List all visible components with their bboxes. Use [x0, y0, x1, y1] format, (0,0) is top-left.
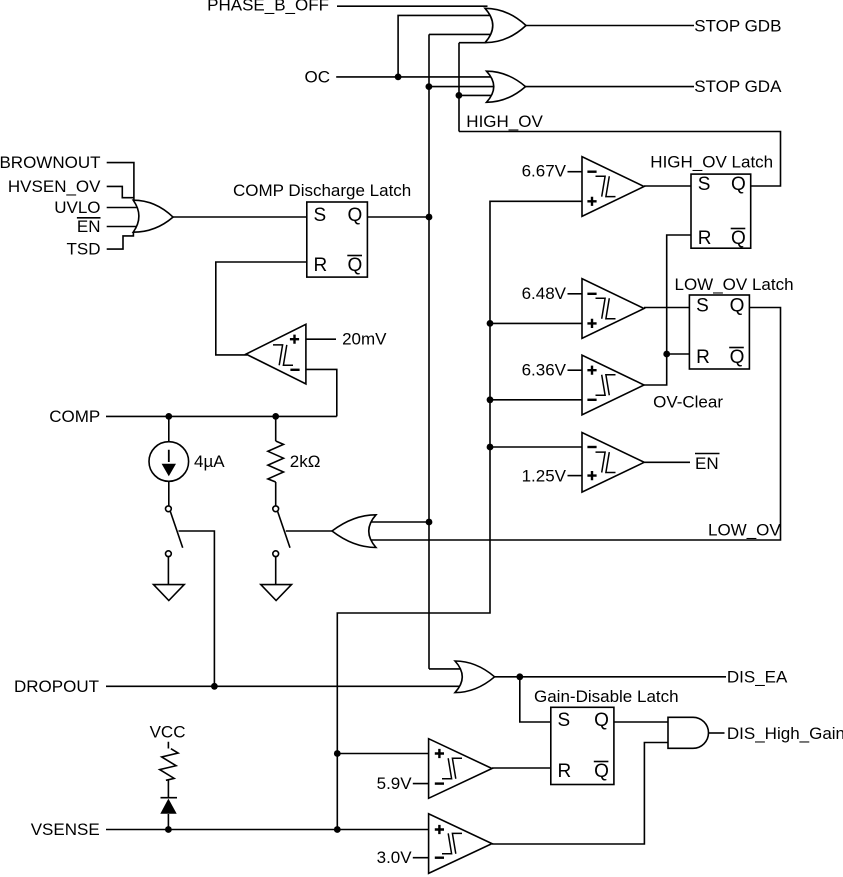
- node HIGH_OV / OR2 tap: [456, 92, 463, 99]
- hysteresis symbol C6: [442, 758, 462, 778]
- node sense / C4 minus tap: [487, 444, 494, 451]
- svg-text:COMP Discharge Latch: COMP Discharge Latch: [233, 181, 411, 200]
- latch L4 Gain-Disable Latch box: [551, 707, 614, 784]
- wire C5 inverting input: [306, 369, 337, 416]
- svg-text:VCC: VCC: [150, 723, 186, 742]
- svg-text:Q: Q: [594, 710, 609, 731]
- diode D1 cathode bar: [161, 797, 178, 799]
- wire COMP-latch-Q net (vertical x429 with taps to OR gates): [362, 34, 495, 669]
- resistor R1 2k zigzag: [268, 441, 284, 482]
- comparator C5 20mV triangle (left-pointing): [246, 324, 306, 384]
- svg-text:Q: Q: [730, 347, 745, 368]
- wire HVSEN_OV input: [107, 186, 134, 197]
- svg-text:LOW_OV Latch: LOW_OV Latch: [675, 275, 794, 294]
- or-gate U4 switch control (left-pointing): [332, 515, 376, 548]
- pin C1 plus: [587, 197, 596, 206]
- node latch1-Q / OR2 tap: [426, 83, 433, 90]
- node latch1-Q / OR-left tap: [426, 519, 433, 526]
- ground symbol switch2: [261, 585, 292, 601]
- wire latch4 Q to AND gate: [614, 721, 668, 723]
- wire TSD input: [107, 232, 134, 250]
- node DIS_EA junction: [516, 673, 523, 680]
- latch L1 COMP Discharge Latch box: [307, 202, 368, 277]
- wire COMP: [106, 415, 337, 417]
- hysteresis symbol C2: [596, 298, 616, 318]
- svg-text:20mV: 20mV: [342, 330, 387, 349]
- svg-text:2kΩ: 2kΩ: [290, 452, 321, 471]
- wire DROPOUT: [106, 685, 465, 687]
- wire STOP GDB output: [526, 25, 694, 27]
- wire 3.0V reference dash: [413, 857, 429, 859]
- hysteresis symbol C7: [442, 833, 462, 853]
- svg-text:HIGH_OV Latch: HIGH_OV Latch: [650, 153, 773, 172]
- pin C4 plus: [587, 471, 596, 480]
- svg-text:DROPOUT: DROPOUT: [14, 677, 99, 696]
- wire 20mV reference: [306, 338, 336, 340]
- svg-text:STOP GDA: STOP GDA: [694, 77, 782, 96]
- svg-text:S: S: [698, 174, 711, 195]
- or-gate U2 STOP_GDA: [487, 71, 526, 102]
- wire PHASE_B_OFF: [337, 5, 488, 7]
- switch SW1 blade: [170, 511, 182, 547]
- node sense / C6 plus tap: [334, 750, 341, 757]
- svg-text:DIS_High_Gain: DIS_High_Gain: [727, 724, 843, 743]
- svg-text:R: R: [698, 228, 712, 249]
- svg-text:PHASE_B_OFF: PHASE_B_OFF: [207, 0, 329, 15]
- svg-text:EN: EN: [695, 454, 719, 473]
- svg-text:OV-Clear: OV-Clear: [653, 393, 723, 412]
- hysteresis symbol C1: [596, 176, 616, 196]
- wire C7 output to AND gate: [492, 743, 668, 845]
- wire LOW_OV net: [362, 308, 781, 541]
- svg-text:OC: OC: [305, 67, 331, 86]
- svg-text:6.67V: 6.67V: [522, 162, 567, 181]
- and-gate U6 DIS_High_Gain: [668, 717, 708, 748]
- or-gate U1 STOP_GDB: [485, 8, 526, 42]
- svg-text:Q: Q: [348, 205, 363, 226]
- svg-text:S: S: [696, 296, 709, 317]
- ground symbol switch1: [154, 585, 185, 601]
- svg-text:STOP GDB: STOP GDB: [694, 16, 781, 35]
- wire C2 output to latch3 S: [644, 307, 689, 309]
- or-gate U5 DIS_EA: [455, 661, 495, 693]
- wire resistor R2k top: [275, 416, 277, 441]
- diode D1 triangle: [160, 799, 176, 814]
- svg-text:Q: Q: [348, 255, 363, 276]
- current source I1 arrow: [162, 450, 176, 476]
- pin C6 minus: [435, 782, 444, 784]
- comparator C7 3.0V triangle: [429, 814, 492, 874]
- pin C2 plus: [587, 319, 596, 328]
- wire latch1 R to comparator C5 output: [216, 262, 307, 355]
- comparator C2 6.48V triangle: [582, 279, 644, 339]
- comparator C6 5.9V triangle: [429, 739, 492, 799]
- node COMP / resistor tap: [272, 413, 279, 420]
- wire resistor R2k bottom: [275, 482, 277, 506]
- svg-text:1.25V: 1.25V: [522, 467, 567, 486]
- wire STOP GDA output: [526, 86, 695, 88]
- switch SW1 contact circles: [166, 506, 172, 512]
- wire VSENSE sense net: [337, 201, 582, 829]
- wire BROWNOUT input: [107, 163, 134, 201]
- svg-text:Q: Q: [731, 228, 746, 249]
- wire latch4 S feed: [520, 677, 551, 722]
- wire DIS_EA output: [495, 676, 726, 678]
- wire current source bottom: [168, 481, 170, 506]
- node VSENSE / sense junction: [334, 826, 341, 833]
- pin C7 minus: [435, 857, 444, 859]
- wire VCC branch: [167, 742, 169, 830]
- pin C4 minus: [587, 446, 596, 448]
- wire AND output: [709, 732, 725, 734]
- svg-text:S: S: [558, 710, 571, 731]
- pin C2 minus: [587, 293, 596, 295]
- switch SW2 blade: [278, 511, 290, 547]
- wire switch1 to ground: [167, 557, 169, 585]
- resistor R2 VCC zigzag: [158, 747, 178, 781]
- wire switch1 control to DROPOUT: [179, 531, 215, 686]
- svg-text:DIS_EA: DIS_EA: [727, 667, 788, 686]
- hysteresis symbol C4: [596, 452, 616, 472]
- svg-text:VSENSE: VSENSE: [31, 820, 100, 839]
- pin C5 minus: [290, 369, 299, 371]
- wire C1 output to latch2 S: [644, 185, 691, 187]
- wire VSENSE: [106, 829, 429, 831]
- wire C6 output to latch4 R: [492, 767, 551, 769]
- pin C1 minus: [587, 170, 596, 172]
- comparator C3 6.36V triangle: [582, 355, 644, 415]
- latch L2 HIGH_OV Latch box: [691, 174, 751, 248]
- switch SW2 contact circles: [273, 506, 279, 512]
- pin C3 minus: [587, 399, 596, 401]
- wire EN input: [107, 226, 140, 228]
- svg-text:R: R: [696, 347, 710, 368]
- wire OR5 output to latch1 S: [173, 216, 307, 218]
- pin C6 plus: [435, 749, 444, 758]
- or-gate U3 fault inputs (5-input): [133, 200, 173, 232]
- wire switch2 control: [286, 530, 332, 532]
- node VSENSE / diode tap: [165, 826, 172, 833]
- node sense / C3 minus tap: [487, 396, 494, 403]
- svg-text:Q: Q: [730, 296, 745, 317]
- wire current source top: [168, 416, 170, 442]
- comparator C4 1.25V triangle: [582, 433, 644, 493]
- svg-text:6.48V: 6.48V: [522, 284, 567, 303]
- wire UVLO input: [107, 207, 140, 209]
- hysteresis symbol C5: [273, 345, 293, 365]
- node COMP / current source tap: [165, 413, 172, 420]
- svg-text:BROWNOUT: BROWNOUT: [0, 153, 101, 172]
- hysteresis symbol C3: [596, 375, 616, 395]
- pin C5 plus: [290, 335, 299, 344]
- svg-text:HIGH_OV: HIGH_OV: [466, 112, 543, 131]
- wire EN output: [644, 461, 690, 463]
- comparator C1 6.67V triangle: [582, 157, 644, 217]
- current source I1 4uA circle: [149, 442, 189, 482]
- wire OV-Clear net: [644, 235, 691, 385]
- wire 6.36V reference dash: [568, 369, 583, 371]
- svg-text:TSD: TSD: [67, 240, 101, 259]
- pin C3 plus: [587, 366, 596, 375]
- svg-text:COMP: COMP: [49, 407, 100, 426]
- svg-text:EN: EN: [77, 217, 101, 236]
- node latch1 Q output junction: [426, 214, 433, 221]
- node OV-Clear / latch3 R tap: [663, 351, 670, 358]
- wire OC net: [336, 15, 495, 77]
- svg-text:6.36V: 6.36V: [522, 360, 567, 379]
- svg-text:5.9V: 5.9V: [377, 774, 413, 793]
- wire switch2 to ground: [275, 557, 277, 585]
- wire HIGH_OV net: [459, 43, 781, 186]
- svg-text:UVLO: UVLO: [54, 198, 100, 217]
- node sense / C2 plus tap: [487, 320, 494, 327]
- svg-text:Q: Q: [594, 761, 609, 782]
- svg-text:3.0V: 3.0V: [377, 848, 413, 867]
- node OC junction: [395, 74, 402, 81]
- svg-text:4µA: 4µA: [194, 452, 225, 471]
- svg-text:HVSEN_OV: HVSEN_OV: [8, 177, 101, 196]
- wire 5.9V reference dash: [413, 783, 429, 785]
- svg-text:Gain-Disable Latch: Gain-Disable Latch: [534, 687, 679, 706]
- latch L3 LOW_OV Latch box: [689, 295, 749, 369]
- svg-text:LOW_OV: LOW_OV: [708, 521, 781, 540]
- svg-text:R: R: [314, 255, 328, 276]
- svg-text:S: S: [314, 205, 327, 226]
- svg-text:R: R: [558, 761, 572, 782]
- pin C7 plus: [435, 825, 444, 834]
- wire 6.48V reference dash: [568, 293, 583, 295]
- wire 1.25V reference dash: [568, 475, 583, 477]
- node DROPOUT / switch1 control tap: [211, 683, 218, 690]
- svg-text:Q: Q: [731, 174, 746, 195]
- wire 6.67V reference dash: [568, 171, 583, 173]
